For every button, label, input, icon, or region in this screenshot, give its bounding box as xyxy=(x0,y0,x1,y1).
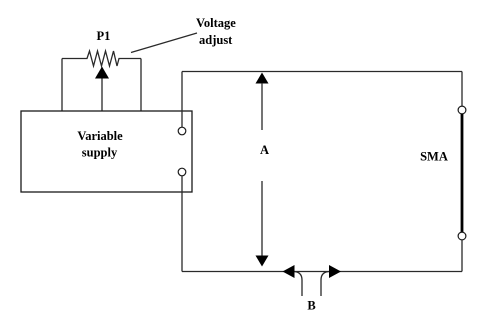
wire right side lower (SMA terminal to bottom corner) xyxy=(461,240,463,272)
arrow A lower shaft xyxy=(261,181,263,256)
svg-text:supply: supply xyxy=(82,146,118,160)
terminal circle lower (supply output) xyxy=(178,168,186,176)
wire top of loop xyxy=(182,71,462,73)
svg-text:Variable: Variable xyxy=(77,129,123,143)
arrow A upper shaft xyxy=(261,83,263,130)
wire P1 right lead down to supply box xyxy=(140,59,142,112)
SMA wire element (thick) xyxy=(461,114,464,232)
wire P1 left lead down to supply box xyxy=(61,59,63,112)
SMA terminal circle upper xyxy=(458,106,466,114)
arrow A down arrowhead xyxy=(256,256,269,267)
wire bottom of loop xyxy=(182,271,462,273)
svg-text:A: A xyxy=(260,143,269,157)
arrow B left arrowhead xyxy=(283,265,295,278)
potentiometer P1 body (zigzag resistor) xyxy=(62,51,141,66)
wire right side upper (top corner to SMA terminal) xyxy=(461,72,463,107)
wire left side of loop upper (top wire corner to upper terminal) xyxy=(181,72,183,128)
arrow B left curved tail xyxy=(293,272,302,297)
svg-text:Voltage: Voltage xyxy=(196,16,236,30)
SMA terminal circle lower xyxy=(458,232,466,240)
leader line to Voltage adjust label xyxy=(131,33,197,53)
svg-text:adjust: adjust xyxy=(199,33,233,47)
svg-text:B: B xyxy=(307,299,315,313)
wire left side of loop lower (lower terminal to bottom wire) xyxy=(181,176,183,272)
svg-text:P1: P1 xyxy=(97,29,111,43)
terminal circle upper (supply output) xyxy=(178,127,186,135)
P1 wiper arrowhead xyxy=(95,67,109,79)
variable supply box xyxy=(21,111,192,192)
arrow B right arrowhead xyxy=(329,265,341,278)
svg-text:SMA: SMA xyxy=(420,150,448,164)
arrow A up arrowhead xyxy=(256,73,269,84)
arrow B right curved tail xyxy=(321,272,330,297)
P1 wiper arrow line xyxy=(101,78,103,111)
